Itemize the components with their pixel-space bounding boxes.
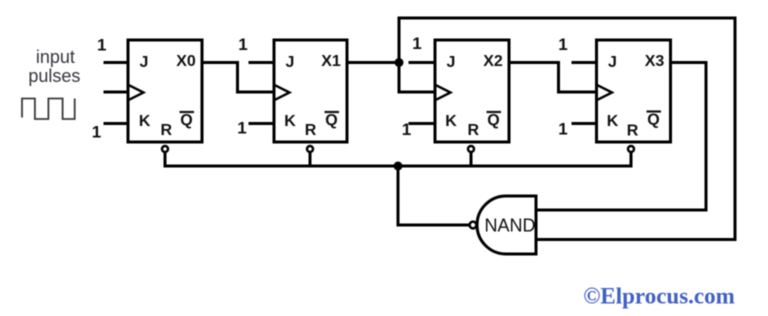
svg-text:J: J	[140, 54, 149, 71]
svg-text:X1: X1	[321, 53, 341, 70]
svg-text:1: 1	[92, 123, 101, 142]
svg-text:X0: X0	[176, 53, 196, 70]
svg-text:R: R	[468, 122, 480, 139]
svg-text:R: R	[305, 122, 317, 139]
svg-text:J: J	[286, 54, 295, 71]
svg-text:Q: Q	[180, 112, 192, 129]
svg-text:1: 1	[97, 36, 106, 55]
svg-text:J: J	[447, 54, 456, 71]
svg-text:R: R	[627, 123, 639, 140]
svg-text:©Elprocus.com: ©Elprocus.com	[583, 284, 735, 309]
svg-text:1: 1	[558, 35, 567, 54]
svg-text:1: 1	[238, 35, 247, 54]
svg-text:Q: Q	[325, 112, 337, 129]
svg-text:1: 1	[412, 34, 421, 53]
svg-text:X2: X2	[483, 53, 503, 70]
svg-text:Q: Q	[487, 112, 499, 129]
svg-text:pulses: pulses	[28, 66, 80, 86]
svg-text:J: J	[608, 54, 617, 71]
svg-text:NAND: NAND	[484, 216, 535, 236]
svg-text:R: R	[161, 122, 173, 139]
svg-text:1: 1	[402, 120, 411, 139]
svg-text:input: input	[36, 47, 75, 67]
svg-text:Q: Q	[647, 112, 659, 129]
svg-text:K: K	[445, 113, 457, 130]
svg-text:1: 1	[558, 120, 567, 139]
svg-text:1: 1	[237, 119, 246, 138]
svg-text:K: K	[284, 113, 296, 130]
svg-text:K: K	[139, 113, 151, 130]
svg-text:K: K	[607, 113, 619, 130]
svg-text:X3: X3	[645, 53, 665, 70]
